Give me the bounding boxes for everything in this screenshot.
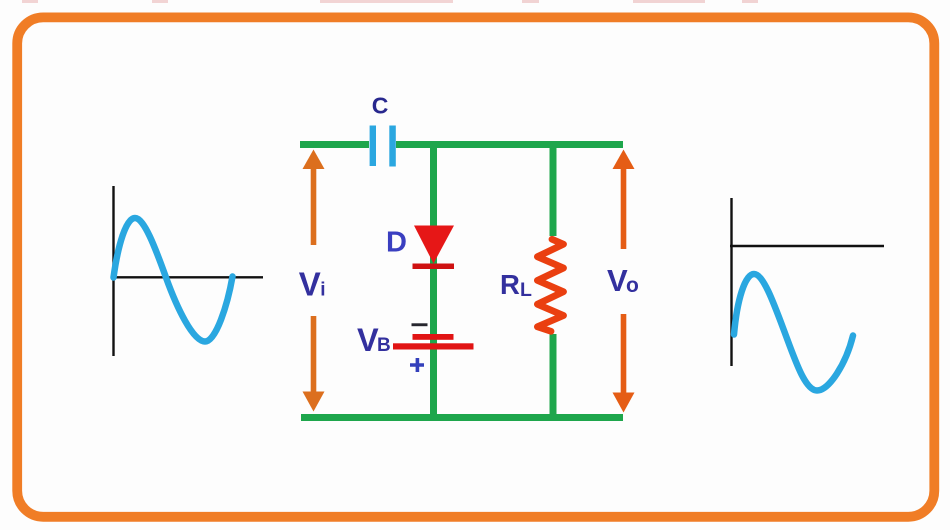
battery minus sign [412, 323, 428, 326]
battery plus sign [410, 358, 424, 372]
Vo measurement arrow upper [613, 150, 635, 250]
svg-text:D: D [386, 227, 407, 259]
svg-text:L: L [520, 279, 532, 301]
Vi measurement arrow lower [303, 316, 325, 412]
output waveform sine [734, 274, 853, 391]
wire top-left segment [300, 141, 369, 148]
cropped title remnants (faint red dashes at top edge) [22, 0, 758, 3]
battery VB [393, 334, 474, 350]
svg-text:V: V [607, 263, 628, 298]
svg-text:o: o [626, 274, 639, 297]
wire top-right segment [396, 141, 623, 148]
svg-text:C: C [372, 93, 389, 119]
capacitor C plates [370, 126, 396, 167]
Vo measurement arrow lower [613, 314, 635, 413]
svg-text:V: V [357, 322, 379, 358]
wire middle vertical (diode/battery branch) [430, 145, 437, 418]
diode D [413, 226, 455, 270]
svg-text:V: V [299, 266, 321, 303]
input waveform sine [114, 218, 233, 342]
svg-text:i: i [320, 280, 325, 301]
svg-text:B: B [377, 335, 391, 356]
Vi measurement arrow upper [303, 150, 325, 246]
resistor RL zigzag [537, 239, 563, 331]
output waveform axes [730, 198, 884, 366]
input waveform axes [112, 186, 263, 356]
wire bottom [301, 414, 623, 421]
wire RL branch upper [550, 145, 557, 237]
svg-text:R: R [500, 269, 520, 300]
wire RL branch lower [550, 334, 557, 418]
